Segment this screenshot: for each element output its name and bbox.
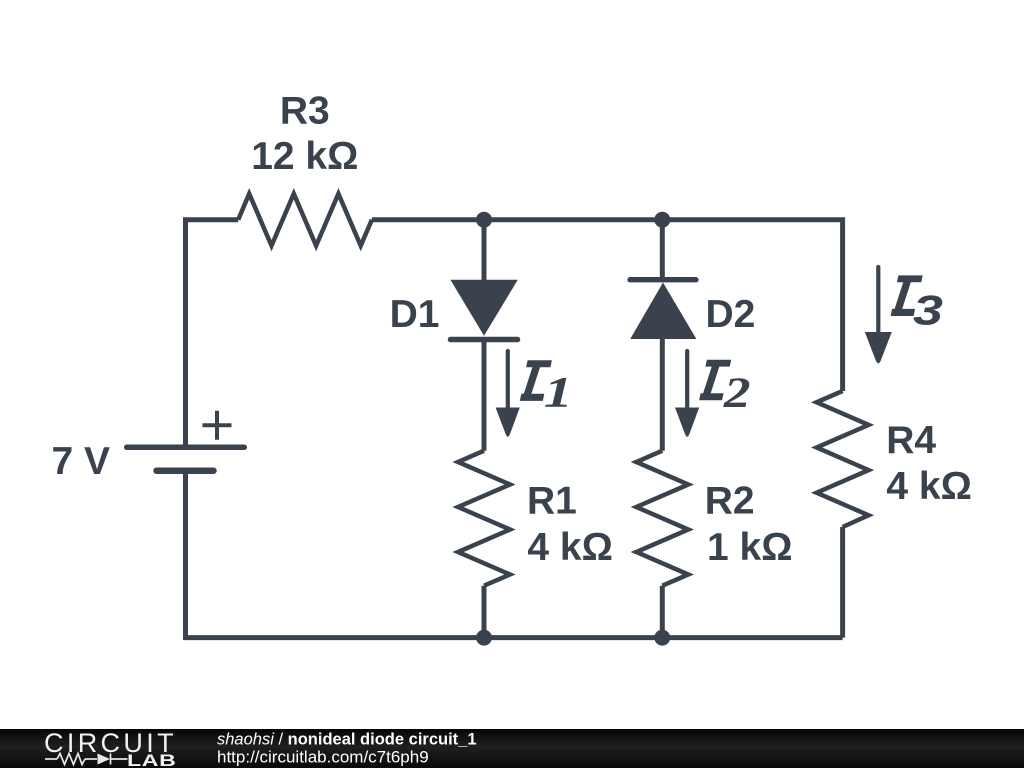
diode D1 cathode bar	[451, 337, 518, 343]
wire: R2 bottom to node D on bottom net	[660, 586, 665, 638]
wire: R4 bottom to bottom-right corner	[840, 527, 845, 638]
resistor R2	[636, 451, 688, 586]
wire: node A to node B (top net)	[484, 217, 662, 222]
battery + polarity mark	[203, 411, 232, 440]
wire: battery + terminal up to top-left corner across to R3	[186, 220, 239, 448]
wire: node B to top-right corner down to R4	[662, 220, 842, 391]
resistor R3	[238, 194, 372, 246]
diode D2 (pointing up)	[630, 283, 696, 340]
wire: D1 cathode down to R1	[482, 340, 487, 451]
node C junction dot	[476, 630, 492, 646]
diode D2 cathode bar	[630, 277, 696, 282]
node A junction dot	[476, 212, 492, 228]
wire: D2 anode down to R2	[660, 339, 665, 451]
label: current I2	[699, 360, 731, 401]
CircuitLab footer bar	[0, 729, 1024, 768]
label: current I1	[520, 360, 552, 401]
voltage source V1: bottom plate (-)	[157, 467, 214, 474]
resistor R4	[817, 391, 869, 527]
voltage source V1: top plate (+)	[127, 444, 245, 450]
wire: node A down to D1 anode	[482, 220, 487, 281]
node B junction dot	[654, 212, 670, 228]
node D junction dot	[654, 630, 670, 646]
CircuitLab logo schematic squiggle: wire, resistor, diode	[45, 754, 128, 765]
CircuitLab logo wordmark LAB	[127, 752, 177, 768]
diode D1 (pointing down)	[450, 280, 517, 336]
svg-text:shaohsi / nonideal diode circu: shaohsi / nonideal diode circuit_1	[217, 731, 477, 749]
wire: R3 right side to node A	[372, 217, 484, 222]
current arrow I1	[496, 351, 520, 437]
current arrow I3	[865, 267, 892, 363]
current arrow I2	[675, 351, 699, 437]
svg-text:http://circuitlab.com/c7t6ph9: http://circuitlab.com/c7t6ph9	[217, 748, 429, 767]
wire: node B down to D2 cathode	[660, 220, 665, 280]
resistor R1	[458, 451, 510, 586]
wire: bottom net from battery - terminal	[186, 471, 843, 638]
label: current I3	[891, 275, 923, 316]
wire: R1 bottom to node C on bottom net	[482, 586, 487, 638]
svg-text:LAB: LAB	[127, 752, 177, 768]
